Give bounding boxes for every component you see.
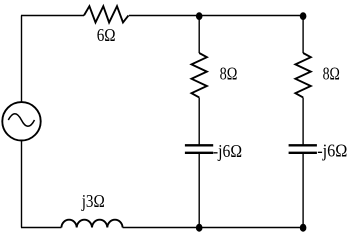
capacitor C1 -j6ohm (branch 1) top plate (185, 144, 213, 146)
resistor R1 6ohm (series, top) (84, 6, 129, 22)
branch 1: wire from capacitor to node D (198, 154, 200, 228)
svg-text:8Ω: 8Ω (220, 64, 238, 84)
capacitor C2 -j6ohm (branch 2) top plate (289, 144, 317, 146)
svg-text:-j6Ω: -j6Ω (213, 141, 242, 161)
capacitor C2 bottom plate (289, 152, 317, 154)
svg-text:8Ω: 8Ω (323, 64, 340, 84)
node B junction dot (top right) (300, 12, 307, 20)
resistor R3 8ohm (branch 2) (295, 53, 310, 97)
wire bottom left (corner to inductor) (21, 227, 61, 229)
wire left vertical lower (source bottom to bottom wire) (21, 141, 23, 227)
sine wave inside source (8, 114, 34, 127)
wire top right (node A to node B) (199, 15, 303, 17)
inductor L1 j3ohm (series, bottom) (61, 220, 122, 228)
node C junction dot (bottom right) (300, 224, 307, 232)
wire top middle (R 6ohm to node A) (129, 15, 199, 17)
wire bottom middle (inductor to node D) (123, 227, 200, 229)
svg-text:-j6Ω: -j6Ω (317, 141, 347, 161)
svg-text:6Ω: 6Ω (97, 25, 116, 45)
branch 2: wire from resistor to capacitor (302, 98, 304, 145)
AC voltage source Vs (2, 102, 40, 140)
svg-text:j3Ω: j3Ω (81, 191, 105, 211)
wire bottom right (node D to node C) (199, 227, 303, 229)
branch 2: wire from capacitor to node C (302, 154, 304, 228)
wire left vertical upper (source top to top wire) (21, 16, 23, 102)
branch 1: wire from resistor to capacitor (198, 98, 200, 145)
node D junction dot (bottom left) (196, 224, 203, 232)
resistor R2 8ohm (branch 1) (192, 53, 207, 97)
branch 2: wire from node B down to resistor (302, 16, 304, 54)
capacitor C1 bottom plate (185, 152, 213, 154)
node A junction dot (top left) (196, 12, 203, 20)
branch 1: wire from node A down to resistor (198, 16, 200, 54)
wire top-left horizontal (source to R 6ohm) (21, 15, 84, 17)
